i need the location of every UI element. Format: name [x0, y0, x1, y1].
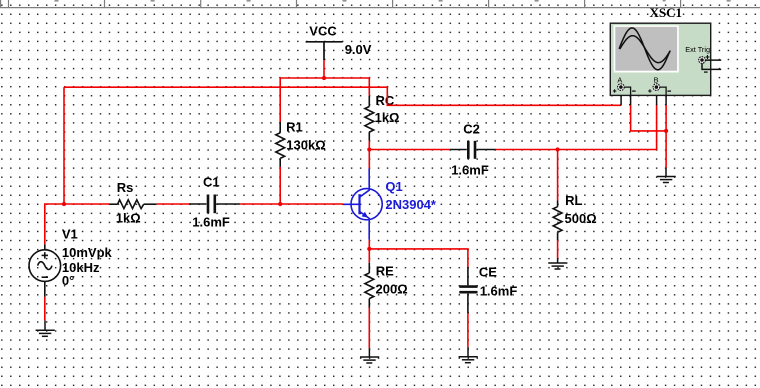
wire C1 to Q1 base: [240, 203, 343, 205]
source V1: [29, 244, 61, 297]
wire collector node to Q1 collector: [368, 150, 370, 169]
svg-text:Ext Trig: Ext Trig: [685, 45, 710, 54]
power symbol VCC: [306, 42, 343, 60]
pin scope B plus: [656, 95, 658, 105]
oscilloscope XSC1 body: [610, 23, 710, 95]
wire output node to scope channel B: [558, 105, 657, 149]
capacitor CE: [459, 267, 477, 313]
terminal B: [648, 84, 671, 96]
junction scope ground net: [664, 129, 668, 133]
svg-text:9.0V: 9.0V: [345, 42, 372, 57]
svg-text:R1: R1: [286, 120, 303, 135]
svg-text:RL: RL: [565, 193, 582, 208]
svg-text:A: A: [617, 76, 622, 85]
wire Q1 emitter to emitter node: [368, 240, 370, 249]
svg-text:1.6mF: 1.6mF: [480, 283, 518, 298]
svg-text:Q1: Q1: [385, 179, 402, 194]
wire emitter node to CE: [369, 249, 468, 267]
junction VCC rail: [322, 76, 326, 80]
svg-text:10mVpk: 10mVpk: [62, 245, 113, 260]
svg-text:C1: C1: [203, 175, 220, 190]
svg-text:CE: CE: [479, 264, 497, 279]
resistor RE: [365, 263, 374, 308]
capacitor C1: [189, 195, 240, 214]
capacitor C2: [450, 141, 496, 159]
svg-text:B: B: [654, 76, 659, 85]
junction collector node: [367, 147, 371, 151]
svg-text:RE: RE: [376, 264, 394, 279]
wire collector node to C2: [369, 149, 450, 151]
wire emitter node to RE: [368, 249, 370, 263]
transistor Q1: [343, 169, 382, 240]
resistor R1: [276, 122, 285, 167]
oscilloscope screen waveform B: [620, 36, 671, 63]
pin scope B minus: [665, 95, 667, 105]
wire input node riser: [63, 87, 65, 204]
junction emitter node: [367, 247, 371, 251]
wire output node to RL: [557, 150, 559, 201]
junction output node: [556, 147, 560, 151]
svg-text:1kΩ: 1kΩ: [375, 110, 400, 125]
svg-text:XSC1: XSC1: [650, 5, 683, 20]
svg-text:C2: C2: [463, 122, 480, 137]
svg-text:0°: 0°: [62, 273, 74, 288]
ground under RL: [548, 258, 567, 269]
resistor RC: [365, 96, 374, 141]
svg-text:V1: V1: [62, 226, 78, 241]
pin scope A minus: [630, 95, 632, 105]
resistor Rs: [109, 200, 156, 209]
ground under V1: [36, 321, 55, 337]
svg-text:2N3904*: 2N3904*: [385, 197, 437, 212]
wire RE to ground: [368, 308, 370, 349]
wire VCC supply rail: [280, 78, 369, 122]
wire R1 bottom to base node: [279, 167, 281, 204]
svg-text:1.6mF: 1.6mF: [192, 215, 230, 230]
wire scope B minus to ground: [665, 105, 667, 168]
resistor RL: [553, 201, 562, 241]
wire input rail to scope channel A: [64, 87, 621, 105]
wire Rs to C1: [157, 203, 189, 205]
oscilloscope screen waveform A: [619, 28, 670, 70]
terminal Ext Trig: [699, 55, 722, 72]
ground under scope: [657, 168, 676, 183]
wire RC to collector node: [368, 141, 370, 150]
svg-text:200Ω: 200Ω: [376, 282, 408, 297]
ground under CE: [459, 347, 478, 363]
wire VCC to rail: [323, 60, 325, 78]
svg-text:1kΩ: 1kΩ: [116, 210, 141, 225]
svg-text:1.6mF: 1.6mF: [451, 162, 489, 177]
junction base node at R1: [278, 202, 282, 206]
wire RL to ground: [557, 240, 559, 258]
wire V1 plus to input node: [45, 204, 110, 244]
svg-text:VCC: VCC: [309, 23, 337, 38]
pin scope A plus: [620, 95, 622, 105]
wire V1 minus to ground: [44, 297, 46, 321]
wire C2 to output node: [496, 149, 558, 151]
svg-text:130kΩ: 130kΩ: [286, 137, 325, 152]
wire CE to ground: [467, 313, 469, 347]
wire scope A minus to ground net: [631, 105, 667, 131]
svg-text:Rs: Rs: [117, 180, 134, 195]
svg-text:500Ω: 500Ω: [565, 211, 597, 226]
ground under RE: [360, 348, 379, 363]
terminal A: [613, 84, 636, 96]
junction input node: [62, 202, 66, 206]
